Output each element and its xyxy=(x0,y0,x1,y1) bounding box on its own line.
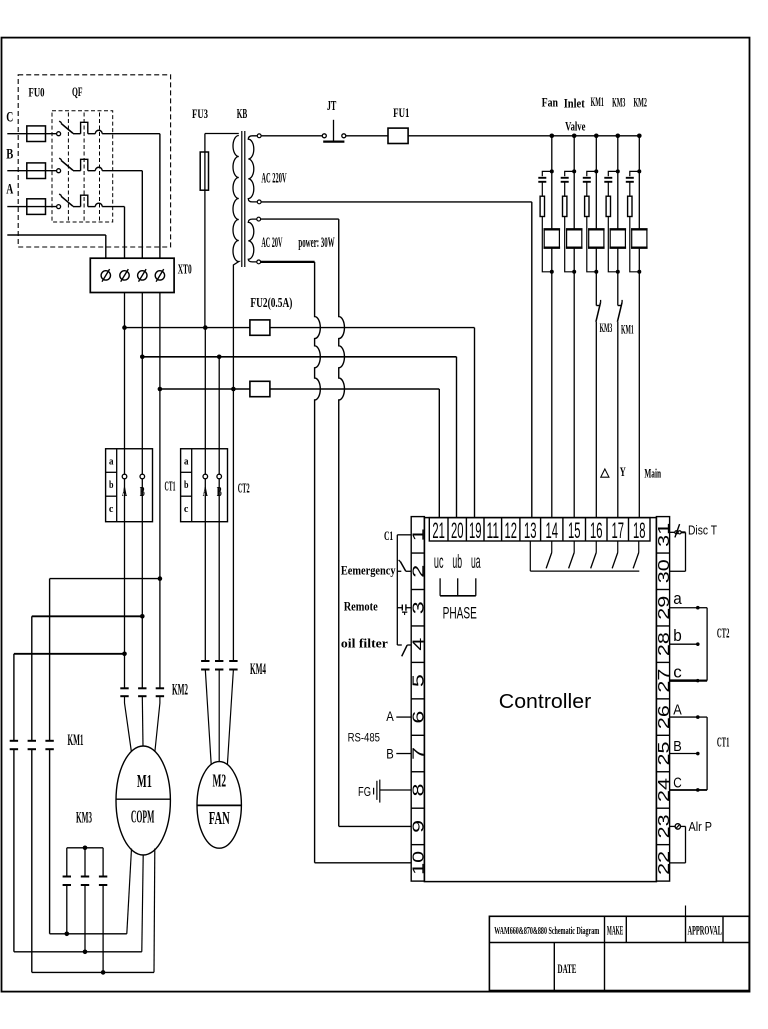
wire RS-485 A to terminal 6 xyxy=(396,716,411,718)
wire phase c2 (bypasses CT2) xyxy=(232,389,234,661)
svg-text:17: 17 xyxy=(612,518,625,543)
wire phase a through CT1 A xyxy=(124,293,126,689)
wire phase c (bypasses CT1) xyxy=(159,293,161,689)
QF linkage dashed line 1 xyxy=(67,113,69,221)
svg-text:CT2: CT2 xyxy=(717,626,730,641)
controller right terminal column xyxy=(656,517,669,882)
svg-text:A: A xyxy=(386,708,394,724)
motor M1 lead-in mid xyxy=(141,696,144,746)
svg-text:Main: Main xyxy=(644,466,661,481)
wire bus line 1 (phase a to controller 19) xyxy=(125,328,475,518)
wire CT1 C xyxy=(670,789,697,791)
internal contact for terminal 17 xyxy=(612,541,618,568)
svg-text:10: 10 xyxy=(410,850,427,875)
svg-text:Fan: Fan xyxy=(542,95,559,110)
svg-text:a: a xyxy=(184,457,189,468)
NC interlock contact KM1 xyxy=(617,300,622,322)
QF linkage dashed line 2 xyxy=(83,113,85,221)
wire AC220V bottom to controller 13 xyxy=(261,202,532,518)
svg-text:C: C xyxy=(6,110,13,126)
relay KM1 coil bottom wire xyxy=(595,248,597,272)
wire KM1 pole2 to L3 xyxy=(31,749,33,972)
relay KM3 coil branch wire xyxy=(617,136,619,230)
internal contact for terminal 15 xyxy=(569,541,575,568)
controller top terminal row xyxy=(429,518,650,541)
wire phase b2 through CT2 B xyxy=(218,357,220,661)
internal contact for terminal 14 xyxy=(546,541,552,568)
discharge temperature switch Disc T xyxy=(670,524,686,537)
fuse FU2 on line 1 xyxy=(250,320,270,335)
wire bus line 3 (phase c to controller 21) xyxy=(160,389,439,518)
neutral wire to XT0 xyxy=(7,235,106,258)
QF linkage dashed line 3 xyxy=(99,113,101,221)
svg-text:FAN: FAN xyxy=(209,808,230,828)
node L1/KM3 xyxy=(65,932,70,937)
Inlet-valve relay coil branch wire xyxy=(573,136,575,230)
svg-text:KM1: KM1 xyxy=(621,322,634,337)
motor M1 lead-in right xyxy=(155,696,160,752)
remote contact xyxy=(397,604,411,615)
relay KM3 coil bottom wire xyxy=(617,248,619,272)
relay KM1 coil branch wire xyxy=(595,136,597,230)
wire L2 xyxy=(14,951,142,953)
svg-text:31: 31 xyxy=(656,523,673,547)
svg-text:3: 3 xyxy=(410,601,427,614)
svg-text:KM2: KM2 xyxy=(633,95,647,110)
wire common C1 to terminal 1 xyxy=(397,535,411,645)
node B end xyxy=(696,752,700,756)
contactor KM2 contact at x=124.5 xyxy=(120,688,128,696)
svg-text:4: 4 xyxy=(410,637,427,651)
node tap b for delta xyxy=(140,614,145,619)
bracket CT1 xyxy=(700,717,708,790)
svg-text:14: 14 xyxy=(546,518,559,543)
CT1 primary terminal B xyxy=(140,474,145,479)
motor M2 lead-in left xyxy=(205,670,211,767)
motor M2 xyxy=(197,762,241,849)
svg-text:DATE: DATE xyxy=(558,961,577,976)
internal contact for terminal 16 xyxy=(591,541,597,568)
svg-text:Remote: Remote xyxy=(344,600,378,614)
svg-text:c: c xyxy=(673,663,682,682)
wire CT1 A xyxy=(670,716,697,718)
svg-text:KM1: KM1 xyxy=(591,94,604,109)
wire phase b through CT1 B xyxy=(141,293,143,689)
contactor KM4 contact at x=205.3 xyxy=(201,661,209,670)
relay KM1 coil xyxy=(588,229,605,247)
svg-text:Disc T: Disc T xyxy=(688,523,717,538)
node C end xyxy=(696,788,700,792)
oil filter switch xyxy=(397,645,411,656)
svg-text:KM3: KM3 xyxy=(612,95,625,110)
fuse FU1 xyxy=(388,128,408,143)
wire AC20V(+) to controller 9 (hops over bus lines) xyxy=(261,219,412,826)
svg-text:Valve: Valve xyxy=(565,119,585,134)
node CT2b tap on line2 xyxy=(217,355,222,360)
shield mark FG xyxy=(374,780,380,803)
wire Alr P loop to terminal 22 xyxy=(670,826,686,862)
svg-text:B: B xyxy=(386,745,394,761)
wire L1 xyxy=(50,933,127,935)
wire tap b to KM1 pole2 xyxy=(32,616,143,741)
incomer phase A: fuse FU0, breaker pole QF, wire to XT0 xyxy=(7,194,124,258)
pushbutton JT xyxy=(322,120,346,142)
node RC bottom relay KM1 xyxy=(594,270,598,274)
wire tap c to KM1 pole1 xyxy=(50,579,160,741)
node c end xyxy=(696,679,700,683)
terminal block XT0 xyxy=(90,258,174,292)
wire CT1 B xyxy=(670,753,697,755)
svg-text:AC 20V: AC 20V xyxy=(261,235,282,251)
Inlet-valve relay coil bottom wire xyxy=(573,248,575,272)
fuse FU2b on line 3 xyxy=(250,381,270,396)
svg-text:C1: C1 xyxy=(384,528,393,543)
wire star bar to KM3 contact at x=85 xyxy=(84,848,86,877)
node RC bottom Fan relay xyxy=(550,270,554,274)
svg-text:15: 15 xyxy=(568,518,581,543)
node star mid xyxy=(83,846,88,851)
svg-text:A: A xyxy=(6,182,13,198)
wire star bar to KM3 contact at x=103.1 xyxy=(102,848,104,877)
wire tap a to KM1 pole3 xyxy=(14,654,125,741)
internal contact for terminal 18 xyxy=(633,541,639,568)
wire AC220V top to JT xyxy=(261,135,322,137)
svg-text:CT2: CT2 xyxy=(238,481,250,496)
terminal circle AC20V bottom xyxy=(257,260,261,264)
svg-text:Inlet: Inlet xyxy=(564,96,586,111)
Fan relay coil xyxy=(544,229,561,247)
svg-text:uc: uc xyxy=(434,552,444,573)
motor M2 lead-in right xyxy=(227,670,233,767)
node bus junction relay KM1 xyxy=(594,134,599,139)
node L2/KM3 xyxy=(83,950,88,955)
svg-text:2: 2 xyxy=(410,565,427,578)
svg-text:JT: JT xyxy=(327,98,337,113)
node bus junction relay KM3 xyxy=(616,134,621,139)
svg-text:FU1: FU1 xyxy=(393,105,409,120)
motor M1 lead-in left xyxy=(125,696,132,752)
phase bracket xyxy=(440,578,476,596)
wire star bar to KM3 contact at x=66.8 xyxy=(66,848,68,877)
node line2 start xyxy=(140,355,145,360)
transformer KB primary winding + wire to line3 xyxy=(233,136,239,390)
svg-text:M2: M2 xyxy=(213,771,227,791)
relay KM2 RC snubber xyxy=(626,171,640,271)
wire relay KM1 to terminal 16 xyxy=(595,322,597,518)
svg-text:power: 30W: power: 30W xyxy=(298,235,334,251)
incomer phase C: fuse FU0, breaker pole QF, wire to XT0 xyxy=(7,121,160,258)
contactor KM1 contact at x=49.6 xyxy=(45,741,53,749)
air pressure sensor Alr P xyxy=(670,824,686,829)
motor M1 lead-out right xyxy=(153,849,156,973)
svg-text:16: 16 xyxy=(590,518,603,543)
svg-text:B: B xyxy=(673,738,682,755)
svg-text:CT1: CT1 xyxy=(717,735,730,750)
svg-text:c: c xyxy=(184,504,189,515)
node bus junction relay KM2 xyxy=(637,134,642,139)
terminal circle AC20V top xyxy=(257,217,261,221)
svg-text:M1: M1 xyxy=(137,771,152,791)
Inlet-valve relay RC snubber xyxy=(561,171,575,271)
svg-text:a: a xyxy=(109,457,114,468)
Fan relay RC snubber xyxy=(538,171,552,271)
wire relay KM1 upper segment xyxy=(595,272,597,306)
node RC bottom Inlet-valve relay xyxy=(572,270,576,274)
contactor KM4 contact at x=233.4 xyxy=(229,661,237,670)
wire Disc T loop to terminal 30 xyxy=(670,532,686,571)
svg-text:ua: ua xyxy=(471,552,481,573)
svg-text:AC 220V: AC 220V xyxy=(261,171,286,187)
node RC top relay KM2 xyxy=(637,169,641,173)
svg-text:18: 18 xyxy=(633,518,646,543)
svg-text:11: 11 xyxy=(487,518,500,543)
CT2 primary terminal A xyxy=(203,474,208,479)
svg-text:8: 8 xyxy=(410,783,427,796)
svg-text:Alr P: Alr P xyxy=(689,819,713,834)
svg-text:13: 13 xyxy=(524,518,537,543)
dashed enclosure FU0/QF xyxy=(18,75,170,247)
motor M1 lead-out mid xyxy=(142,855,143,952)
svg-text:B: B xyxy=(6,146,13,162)
relay KM3 RC snubber xyxy=(604,171,618,271)
fuse FU3 with wire xyxy=(200,134,239,328)
svg-text:KM4: KM4 xyxy=(250,661,266,678)
svg-text:A: A xyxy=(673,702,682,719)
relay KM2 coil branch wire xyxy=(638,136,640,230)
relay KM2 coil xyxy=(631,229,648,247)
svg-text:1: 1 xyxy=(410,528,427,541)
node RC bottom relay KM2 xyxy=(637,270,641,274)
svg-text:CT1: CT1 xyxy=(165,479,176,494)
node KB-primary tap on line3 xyxy=(231,387,236,392)
svg-text:Controller: Controller xyxy=(499,690,592,713)
star point bar KM3 xyxy=(67,847,103,849)
contactor KM2 contact at x=142.3 xyxy=(138,688,146,696)
node bus junction Inlet-valve relay xyxy=(572,134,577,139)
svg-text:△: △ xyxy=(599,465,610,479)
wire CT2 b xyxy=(670,643,697,645)
contactor KM3 contact at x=85 xyxy=(81,877,89,886)
svg-text:a: a xyxy=(673,589,682,608)
wire relay KM3 to terminal 17 xyxy=(617,322,619,518)
svg-text:KM3: KM3 xyxy=(600,320,613,335)
motor M2 lead-in mid xyxy=(218,670,220,762)
node line3 start xyxy=(158,387,163,392)
svg-text:FU0: FU0 xyxy=(29,84,45,99)
node FU3/CT2a tap on line1 xyxy=(203,325,208,330)
node RC top Inlet-valve relay xyxy=(572,169,576,173)
node RC bottom relay KM3 xyxy=(616,270,620,274)
wire phase a2 through CT2 A xyxy=(204,328,206,661)
wire CT2 c xyxy=(670,679,697,681)
svg-text:6: 6 xyxy=(410,711,427,724)
node a end xyxy=(696,606,700,610)
motor M1 xyxy=(116,746,170,855)
svg-text:KM2: KM2 xyxy=(172,682,188,699)
node RC top relay KM3 xyxy=(616,169,620,173)
terminal circle AC220V top xyxy=(257,134,261,138)
svg-text:FG: FG xyxy=(358,784,371,799)
svg-text:XT0: XT0 xyxy=(178,262,192,277)
svg-text:KB: KB xyxy=(237,106,248,121)
Fan relay coil bottom wire xyxy=(551,248,553,272)
svg-text:b: b xyxy=(673,626,682,645)
wire FU1 to relay bus xyxy=(408,135,639,137)
wire RS-485 B to terminal 7 xyxy=(396,753,411,755)
svg-text:19: 19 xyxy=(469,518,482,543)
wire KM3 pole3 to L3 xyxy=(102,885,104,972)
wire KM1 pole1 to L1 xyxy=(49,749,51,934)
current transformer CT1 box xyxy=(106,449,153,522)
wire relay KM2 to terminal 18 xyxy=(638,272,640,518)
svg-text:C: C xyxy=(673,775,682,792)
svg-text:7: 7 xyxy=(410,747,427,760)
wire FG to terminal 8 xyxy=(380,789,411,791)
svg-text:Eemergency: Eemergency xyxy=(341,564,396,578)
relay KM1 RC snubber xyxy=(583,171,597,271)
wire JT to FU1 xyxy=(346,135,388,137)
svg-text:oil filter: oil filter xyxy=(341,637,388,651)
breaker QF dashed box xyxy=(52,111,113,222)
node tap c for delta xyxy=(158,576,163,581)
svg-text:9: 9 xyxy=(410,820,427,833)
bracket CT2 xyxy=(700,608,708,681)
svg-text:ub: ub xyxy=(452,552,462,573)
svg-text:5: 5 xyxy=(410,674,427,687)
controller left terminal column xyxy=(411,517,424,882)
svg-text:QF: QF xyxy=(72,84,83,99)
transformer KB core xyxy=(242,131,245,267)
svg-text:MAKE: MAKE xyxy=(607,923,624,938)
wire AC20V(-) to controller 10 (hops over bus lines) xyxy=(261,262,412,863)
svg-text:FU2(0.5A): FU2(0.5A) xyxy=(250,295,292,310)
svg-text:Y: Y xyxy=(620,465,626,479)
wire KM1 pole3 to L2 xyxy=(13,749,15,952)
svg-text:WAM660&870&880 Schematic Diagr: WAM660&870&880 Schematic Diagram xyxy=(494,925,599,937)
wire Inlet-valve relay to terminal 15 xyxy=(573,272,575,518)
node A end xyxy=(696,715,700,719)
title block xyxy=(489,906,749,991)
node b end xyxy=(696,642,700,646)
controller body xyxy=(424,518,656,882)
svg-text:20: 20 xyxy=(451,518,464,543)
transformer KB secondary AC220V winding xyxy=(248,136,257,202)
wire relay KM3 upper segment xyxy=(617,272,619,306)
svg-text:b: b xyxy=(109,480,114,491)
internal common wire from 13 xyxy=(530,541,639,571)
svg-text:APPROVAL: APPROVAL xyxy=(687,923,722,938)
wire Fan relay to terminal 14 xyxy=(551,272,553,518)
relay KM2 coil bottom wire xyxy=(638,248,640,272)
Inlet-valve relay coil xyxy=(566,229,583,247)
svg-text:12: 12 xyxy=(505,518,518,543)
svg-text:PHASE: PHASE xyxy=(443,603,477,622)
node bus junction Fan relay xyxy=(550,134,555,139)
incomer phase B: fuse FU0, breaker pole QF, wire to XT0 xyxy=(7,158,142,258)
terminal circle AC220V bottom xyxy=(257,200,261,204)
contactor KM2 contact at x=159.9 xyxy=(156,688,164,696)
contactor KM1 contact at x=31.8 xyxy=(28,741,36,749)
svg-text:COPM: COPM xyxy=(131,807,155,827)
svg-text:FU3: FU3 xyxy=(192,106,208,121)
transformer KB secondary AC20V winding xyxy=(248,219,257,262)
Fan relay coil branch wire xyxy=(551,136,553,230)
contactor KM4 contact at x=219.2 xyxy=(215,661,223,670)
motor M1 lead-out left xyxy=(127,849,132,934)
svg-text:21: 21 xyxy=(432,518,445,543)
contactor KM3 contact at x=103.1 xyxy=(99,877,107,886)
NC interlock contact KM3 xyxy=(596,300,601,322)
svg-text:b: b xyxy=(184,480,189,491)
wire KM3 pole2 to L2 xyxy=(84,885,86,952)
wire bus line 2 (phase b to controller 20) xyxy=(142,357,456,518)
contactor KM3 contact at x=66.8 xyxy=(63,877,71,886)
svg-text:RS-485: RS-485 xyxy=(348,731,381,745)
emergency stop switch xyxy=(397,560,411,571)
node tap a for delta xyxy=(122,652,127,657)
CT2 primary terminal B xyxy=(217,474,222,479)
svg-text:c: c xyxy=(109,504,114,515)
node RC top relay KM1 xyxy=(594,169,598,173)
contactor KM1 contact at x=13.9 xyxy=(10,741,18,749)
node RC top Fan relay xyxy=(550,169,554,173)
svg-text:KM3: KM3 xyxy=(76,810,92,827)
wire KM3 pole1 to L1 xyxy=(66,885,68,934)
current transformer CT2 box xyxy=(181,449,228,522)
svg-text:KM1: KM1 xyxy=(68,732,84,749)
relay KM3 coil xyxy=(610,229,627,247)
wire CT2 a xyxy=(670,607,697,609)
node L3/KM3 xyxy=(101,970,106,975)
wire L3 xyxy=(32,971,154,973)
node line1 start xyxy=(122,325,127,330)
CT1 primary terminal A xyxy=(122,474,127,479)
